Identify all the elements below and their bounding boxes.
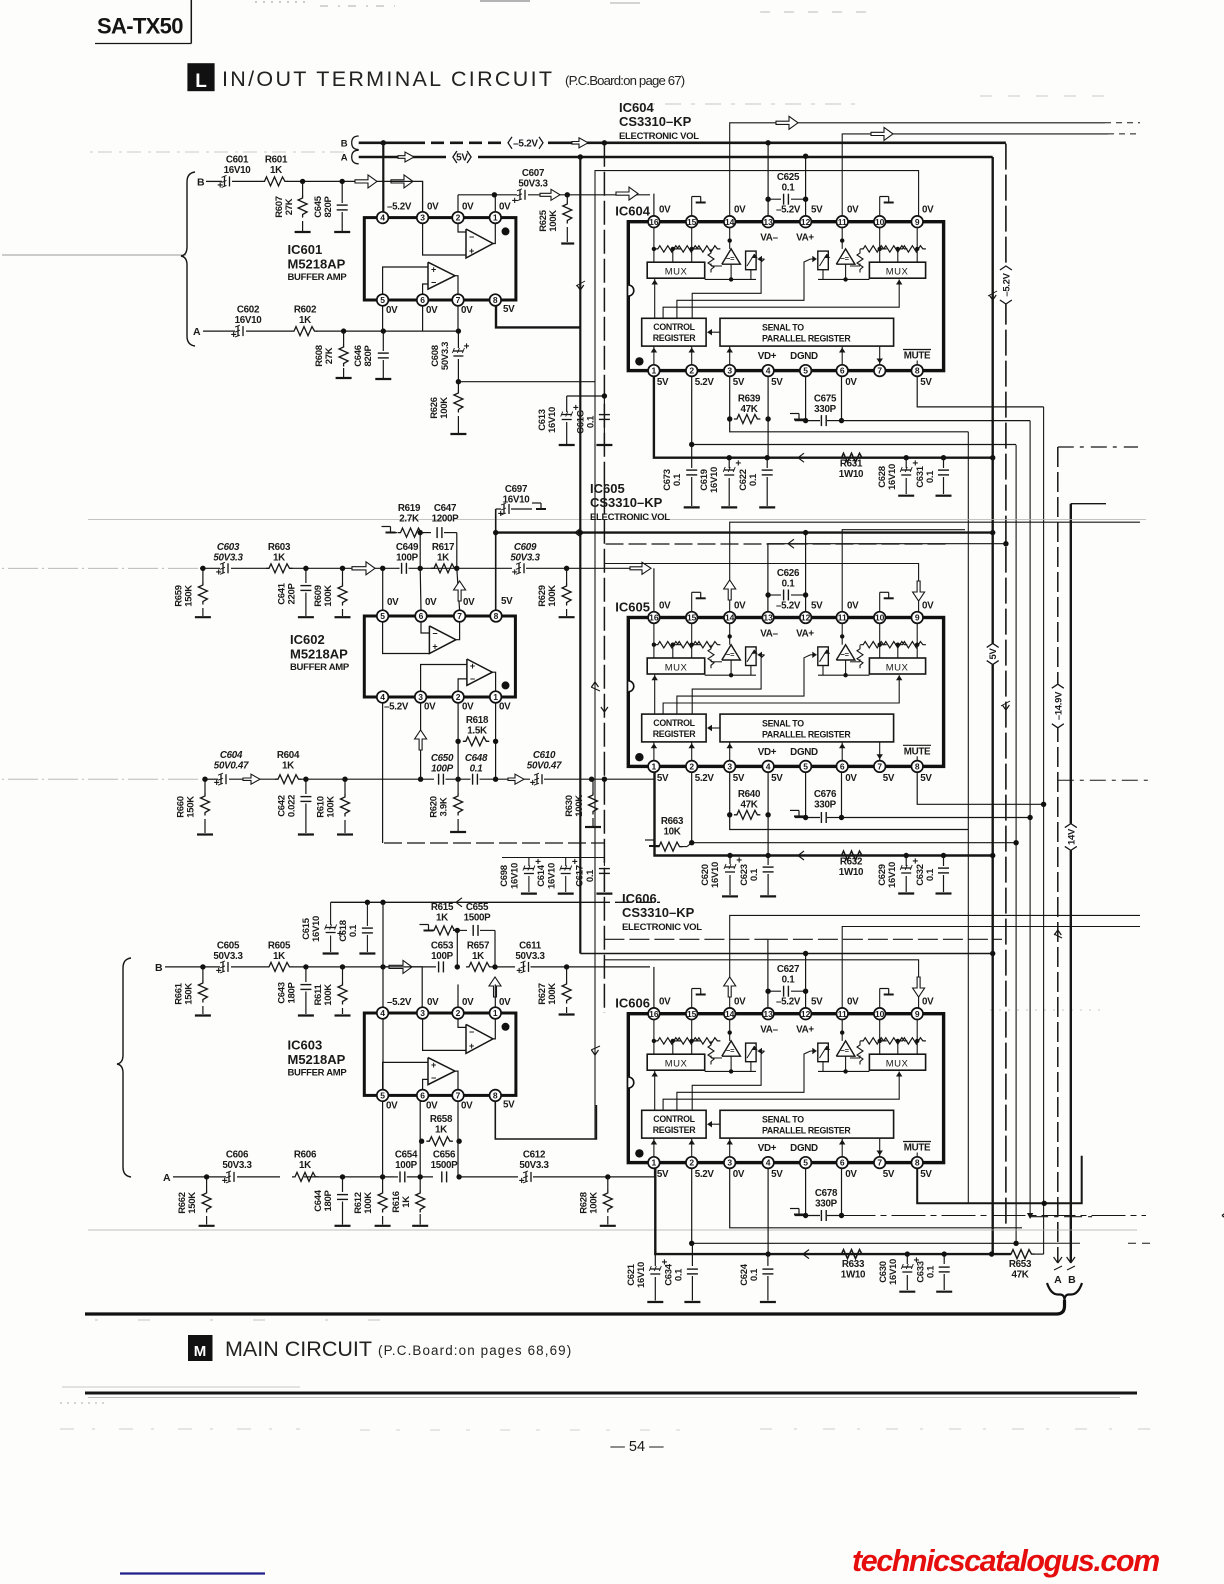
svg-text:5: 5 [803,762,808,772]
wire IC602 pin1 down [495,703,497,779]
terminal A arrow + label [1054,1257,1058,1263]
svg-text:+: + [216,966,222,977]
svg-text:R639: R639 [738,394,761,405]
svg-text:0V: 0V [427,997,439,1008]
svg-text:100P: 100P [431,951,453,962]
svg-text:R606: R606 [294,1150,317,1161]
svg-text:1K: 1K [273,951,285,962]
svg-text:1K: 1K [437,553,449,564]
svg-text:0V: 0V [847,997,859,1008]
wire pin6 line right [842,420,1031,422]
svg-text:5V: 5V [920,1169,932,1180]
ground R629 [559,616,575,618]
svg-text:C610: C610 [533,750,556,761]
node pin2 row2 lower [455,777,460,782]
svg-text:0.1: 0.1 [470,764,483,775]
svg-text:C648: C648 [465,753,488,764]
svg-text:9: 9 [915,613,920,623]
svg-text:27K: 27K [284,198,295,215]
resistor R615 1K [431,926,458,935]
svg-text:1K: 1K [435,1125,447,1136]
svg-text:C698: C698 [499,865,510,887]
capacitor C621 16V10 [654,1254,656,1266]
arrowhead on 5V line [798,453,804,458]
svg-text:R601: R601 [265,155,288,166]
svg-text:6: 6 [419,611,424,621]
wire IC601 pin8 5V feed [496,306,581,328]
svg-text:ELECTRONIC VOL: ELECTRONIC VOL [622,922,702,933]
capacitor C645 820P [341,181,343,203]
IC605 pin 16 [648,612,660,624]
IC604 internal attenuator box left [746,251,757,270]
svg-text:5V: 5V [456,153,468,164]
ground C673 [684,506,700,508]
svg-text:−=: −= [726,650,735,659]
svg-text:+: + [498,509,504,520]
svg-text:16V10: 16V10 [224,165,252,176]
svg-text:R609: R609 [313,585,324,607]
IC606 pin 2 [686,1157,698,1169]
svg-text:3: 3 [727,366,732,376]
resistor R628 100K [607,1177,609,1190]
svg-text:R640: R640 [738,789,761,800]
svg-text:VA–: VA– [760,628,778,639]
svg-text:+: + [217,180,223,191]
section L marker box [187,63,214,91]
ground C618 [359,952,375,954]
svg-text:C622: C622 [738,469,749,491]
IC606 pin 8 [911,1157,923,1169]
resistor R620 3.9K [457,779,459,793]
bus pin3-line vertical x968 [967,432,969,1204]
IC604 CONTROL REGISTER box [642,318,706,346]
resistor R632 1W10 [839,851,866,860]
svg-text:1.5K: 1.5K [467,726,487,737]
svg-text:C614: C614 [536,864,547,887]
svg-text:7: 7 [877,762,882,772]
IC604 pin 13 [762,216,774,228]
node pin5 feed row3 [380,900,385,905]
arrowhead row2 -5.2V line [788,539,794,544]
svg-text:0.1: 0.1 [782,975,796,986]
dash-dot stub y780 [1058,779,1151,781]
svg-text:IC606: IC606 [615,996,650,1011]
node C608 bottom [456,379,461,384]
svg-text:5: 5 [803,1158,808,1168]
IC605 CONTROL REGISTER box [642,714,706,742]
ground C622 [759,506,775,508]
svg-text:+: + [469,1041,474,1051]
IC604 pin 15 [686,216,698,228]
svg-text:C646: C646 [353,345,364,367]
capacitor C608 50V3.3 [457,331,459,348]
svg-text:0.022: 0.022 [287,795,298,817]
row2 pin11 line [842,530,965,617]
IC602 pin 5 [377,610,389,622]
IC604 pin 11 [836,216,848,228]
svg-text:3: 3 [420,1008,425,1018]
IC604 pin 16 [648,216,660,228]
IC601 pin 5 [377,294,389,306]
svg-text:150K: 150K [184,585,195,607]
terminal B arrow + label [1067,1257,1071,1263]
svg-text:BUFFER AMP: BUFFER AMP [288,1067,348,1078]
svg-text:5V: 5V [657,1169,669,1180]
capacitor C634 0.1 [691,1243,693,1266]
resistor R604 1K [275,775,302,784]
svg-text:REGISTER: REGISTER [653,1125,697,1135]
svg-text:16: 16 [649,1009,659,1019]
signal arrow row2 [352,562,375,575]
wire to IC602 pin6 [419,568,422,610]
svg-text:0V: 0V [499,702,511,713]
ground R659 [195,616,211,618]
svg-text:0V: 0V [845,377,857,388]
svg-text:2: 2 [689,762,694,772]
row3 pin11 line [842,927,1140,1008]
resistor R639 47K [729,376,731,419]
svg-text:16: 16 [649,217,659,227]
svg-text:1K: 1K [270,165,282,176]
IC604 pin 3 [724,365,736,377]
svg-text:5V: 5V [811,205,823,216]
IC IC602 M5218AP outline [364,616,515,697]
svg-text:0V: 0V [659,205,671,216]
svg-text:C647: C647 [434,503,457,514]
svg-text:C623: C623 [739,864,750,886]
svg-text:CS3310–KP: CS3310–KP [622,905,695,920]
IC602 op-amp A (upper) [429,626,456,654]
wire C655 down [494,930,496,967]
svg-text:0V: 0V [426,1100,438,1111]
capacitor C618 0.1 [366,902,368,926]
svg-text:50V3.3: 50V3.3 [519,1160,549,1171]
IC604 pin 8 [911,365,923,377]
wire IC603 pin5 down [382,1101,384,1177]
IC604 right MUX box [869,262,925,278]
arrow on pin14 line [776,116,798,129]
IC IC604 CS3310-KP outline [628,222,943,371]
svg-text:100K: 100K [547,983,558,1005]
ground R612 [375,1225,391,1227]
svg-text:330P: 330P [815,1199,837,1210]
IC602 pin 3 [415,691,427,703]
svg-text:R603: R603 [268,542,291,553]
svg-text:REGISTER: REGISTER [653,333,697,343]
svg-text:16V10: 16V10 [547,407,558,433]
svg-text:12: 12 [801,217,811,227]
svg-text:VA–: VA– [760,1025,778,1036]
svg-text:7: 7 [456,1091,461,1101]
svg-text:+: + [431,264,436,274]
ground R662 [199,1225,215,1227]
bottom-left blue line [120,1572,265,1574]
svg-text:VD+: VD+ [758,351,777,362]
resistor R616 1K [419,1177,421,1190]
svg-text:–5.2V: –5.2V [776,997,801,1008]
svg-text:R631: R631 [840,459,863,470]
node R610 [342,777,347,782]
bus 5V bubble [986,643,1000,664]
bus 14V up arrow [1054,930,1058,935]
svg-text:C641: C641 [276,582,287,605]
svg-text:C624: C624 [739,1263,750,1286]
SA-TX50 box lines [190,0,192,44]
svg-text:9: 9 [915,1009,920,1019]
capacitor C611 50V3.3 [495,966,515,968]
wire pin12 to 5V rail [805,157,807,228]
resistor R653 47K [1008,1250,1035,1259]
svg-text:0V: 0V [845,773,857,784]
node C641 [303,566,308,571]
row2 pin3 line right [730,815,969,830]
IC604 internal op-amp right [836,249,855,264]
svg-text:1W10: 1W10 [839,867,864,878]
up arrow pin14 row2 [724,580,736,600]
svg-text:5V: 5V [811,600,823,611]
svg-text:0.1: 0.1 [749,1268,760,1281]
svg-text:C643: C643 [276,982,287,1004]
svg-text:5V: 5V [733,773,745,784]
svg-text:C673: C673 [662,469,673,491]
resistor R660 150K [204,779,206,793]
svg-text:100K: 100K [323,984,334,1006]
svg-text:0V: 0V [424,702,436,713]
svg-text:4: 4 [380,213,385,223]
svg-text:B: B [1068,1274,1076,1286]
svg-text:C605: C605 [217,941,240,952]
svg-text:16: 16 [649,613,659,623]
IC605 pin 15 [686,612,698,624]
node pin6/R619 [418,566,423,571]
svg-text:R626: R626 [429,397,440,419]
down arrow pin9 row2 [913,581,925,601]
capacitor C633 0.1 [943,1254,945,1264]
bus pin8-line vertical x1043 [1043,407,1045,1254]
IC602 op-amp A wires [421,622,429,633]
svg-text:C606: C606 [226,1150,249,1161]
svg-text:IC603: IC603 [288,1037,323,1052]
svg-text:−: − [469,1027,474,1037]
IC606 pin-1 index dot [635,1149,643,1157]
node R629 [564,566,569,571]
svg-text:C634: C634 [663,1263,674,1286]
svg-text:4: 4 [380,1008,385,1018]
svg-text:1K: 1K [401,1196,412,1208]
svg-text:VA–: VA– [760,233,778,244]
IC606 SERIAL TO PARALLEL REGISTER box [720,1110,894,1138]
svg-text:C653: C653 [431,941,454,952]
IC604 pin 1 [648,365,660,377]
svg-text:150K: 150K [186,796,197,818]
IC601 op-amp B wires [458,223,466,232]
svg-text:R607: R607 [274,196,285,218]
IC604 pin 5 [800,365,812,377]
IC604 pin8 MUTE stub [916,361,918,365]
svg-text:0V: 0V [847,205,859,216]
svg-text:L: L [195,71,207,92]
resistor R611 100K [342,967,344,982]
svg-text:5V: 5V [883,1169,895,1180]
svg-text:IC605: IC605 [615,599,650,614]
ground C633 [936,1291,952,1293]
svg-text:6: 6 [420,1091,425,1101]
svg-text:0V: 0V [427,202,439,213]
inner bus signal x595 [594,171,596,1139]
arrowhead row3 pin6 line [1222,1211,1224,1216]
capacitor C601 16V10 [224,176,226,186]
arrowhead row3 5V line [803,1250,809,1255]
svg-text:DGND: DGND [790,1143,818,1154]
IC604 left-edge notch [628,285,634,296]
IC605 internal resistor chain left [653,623,655,644]
arrow down on x595 bus [592,1050,596,1055]
svg-text:–5.2V: –5.2V [384,702,409,713]
svg-text:47K: 47K [740,404,757,415]
svg-text:0.1: 0.1 [925,470,936,483]
IC606 internal op-amp right [836,1041,855,1056]
svg-text:C642: C642 [276,795,287,817]
svg-text:0V: 0V [387,597,399,608]
signal arrow to IC604 [540,189,560,200]
up arrow at pin7 [454,581,466,601]
svg-text:3.9K: 3.9K [439,797,450,816]
IC606 pin 10 [874,1008,886,1020]
svg-text:47K: 47K [740,800,757,811]
IC605 internal op-amp right [836,645,855,660]
svg-text:12: 12 [801,1009,811,1019]
svg-text:0.1: 0.1 [926,1265,937,1278]
IC602 pin-1 index dot [502,681,510,689]
faint arrow on row2 lower line [243,774,260,784]
bus pin2-line vertical x1016 [1015,445,1017,1243]
wire IC603 pin6 down [419,1101,421,1177]
IC606 digital ground above pin15 [691,989,693,1008]
svg-text:C649: C649 [396,542,419,553]
arrowhead on row2 5V line [575,528,581,533]
svg-text:0.1: 0.1 [586,415,597,428]
svg-text:SENAL TO: SENAL TO [762,1115,804,1125]
svg-text:R629: R629 [537,585,548,607]
svg-text:4: 4 [766,762,771,772]
IC605 pin 10 [874,612,886,624]
svg-text:11: 11 [838,217,847,227]
bus x1030 end arrow [1027,1213,1033,1219]
row3 pin12 wire [805,954,807,1014]
IC603 pin 3 [417,1007,429,1019]
inner bus 5V x580 [579,157,581,954]
IC603 pin 8 [490,1090,502,1102]
IC603 pin 6 [417,1090,429,1102]
svg-text:8: 8 [494,611,499,621]
rail B -5.2V bubble [508,136,543,150]
R615/C655 branch [420,924,429,926]
svg-text:0V: 0V [922,997,934,1008]
wire pin1 5V thick line [654,376,993,457]
node C608 / pin7 [456,328,461,333]
IC605 left cell base wire [705,674,756,676]
IC604 pin 6 [836,365,848,377]
svg-text:5: 5 [380,295,385,305]
IC605 left-edge notch [628,681,634,692]
svg-text:1K: 1K [299,1160,311,1171]
bus pin6-line vertical x1030 [1029,421,1031,1215]
node C646 / pin5 [381,328,386,333]
svg-text:MUX: MUX [665,267,688,278]
capacitor C620 16V10 [727,853,732,858]
svg-text:5V: 5V [501,596,513,607]
arrow on inner 5V bus [577,285,581,290]
svg-text:R611: R611 [313,983,324,1005]
IC604 pin 12 [800,216,812,228]
svg-text:1: 1 [493,1008,498,1018]
svg-text:50V3.3: 50V3.3 [440,342,451,370]
resistor R627 100K [566,967,568,981]
row2 return line to pin9 [604,564,918,612]
thick wire to MAIN CIRCUIT [85,1300,1065,1314]
capacitor C641 220P [305,568,307,583]
ground R626 [450,433,466,435]
svg-text:11: 11 [838,1009,847,1019]
bus -5.2V down arrow [1002,705,1006,710]
wire into IC604 pin16 [653,194,655,216]
svg-text:5V: 5V [811,997,823,1008]
IC603 pin 5 [377,1090,389,1102]
rail A 5V bubble [453,150,471,164]
svg-text:C609: C609 [514,542,537,553]
svg-text:4: 4 [766,1158,771,1168]
ground C620 [722,895,738,897]
svg-text:1: 1 [493,692,498,702]
svg-text:C630: C630 [878,1261,889,1283]
resistor R608 27K [343,331,345,344]
arrow into IC605 [630,562,651,574]
IC603 pin 2 [452,1007,464,1019]
capacitor C655 1500P [453,929,467,931]
svg-text:B: B [155,962,163,974]
svg-text:BUFFER AMP: BUFFER AMP [290,662,350,673]
node R627 [564,964,569,969]
IC606 internal resistor chain right [916,1020,918,1041]
IC606 pin 16 [648,1008,660,1020]
supply rail B -5.2V row1 [359,142,412,145]
resistor R601 1K [262,177,289,186]
svg-text:+: + [530,778,536,789]
IC602 pin 8 [490,610,502,622]
node pin3 row2 lower [418,777,423,782]
svg-text:CS3310–KP: CS3310–KP [619,114,692,129]
svg-text:6: 6 [840,366,845,376]
svg-text:PARALLEL REGISTER: PARALLEL REGISTER [762,334,851,344]
node R660 [202,777,207,782]
ground C641 [298,616,314,618]
svg-text:+: + [519,1176,525,1187]
svg-text:R657: R657 [467,941,490,952]
IC606 pin8 thick line [917,1156,1081,1204]
capacitor C610 50V0.47 [536,774,538,784]
IC606 internal resistor chain left [653,1020,655,1041]
svg-text:0V: 0V [462,202,474,213]
node rail B to right drop [765,140,770,145]
svg-text:R662: R662 [177,1192,188,1214]
down arrow pin9 row3 [913,977,925,997]
svg-text:VD+: VD+ [758,747,777,758]
IC605 pin 3 [724,761,736,773]
svg-text:R617: R617 [432,542,455,553]
svg-text:100K: 100K [589,1192,600,1214]
IC605 pin 4 [762,761,774,773]
svg-text:2: 2 [456,692,461,702]
